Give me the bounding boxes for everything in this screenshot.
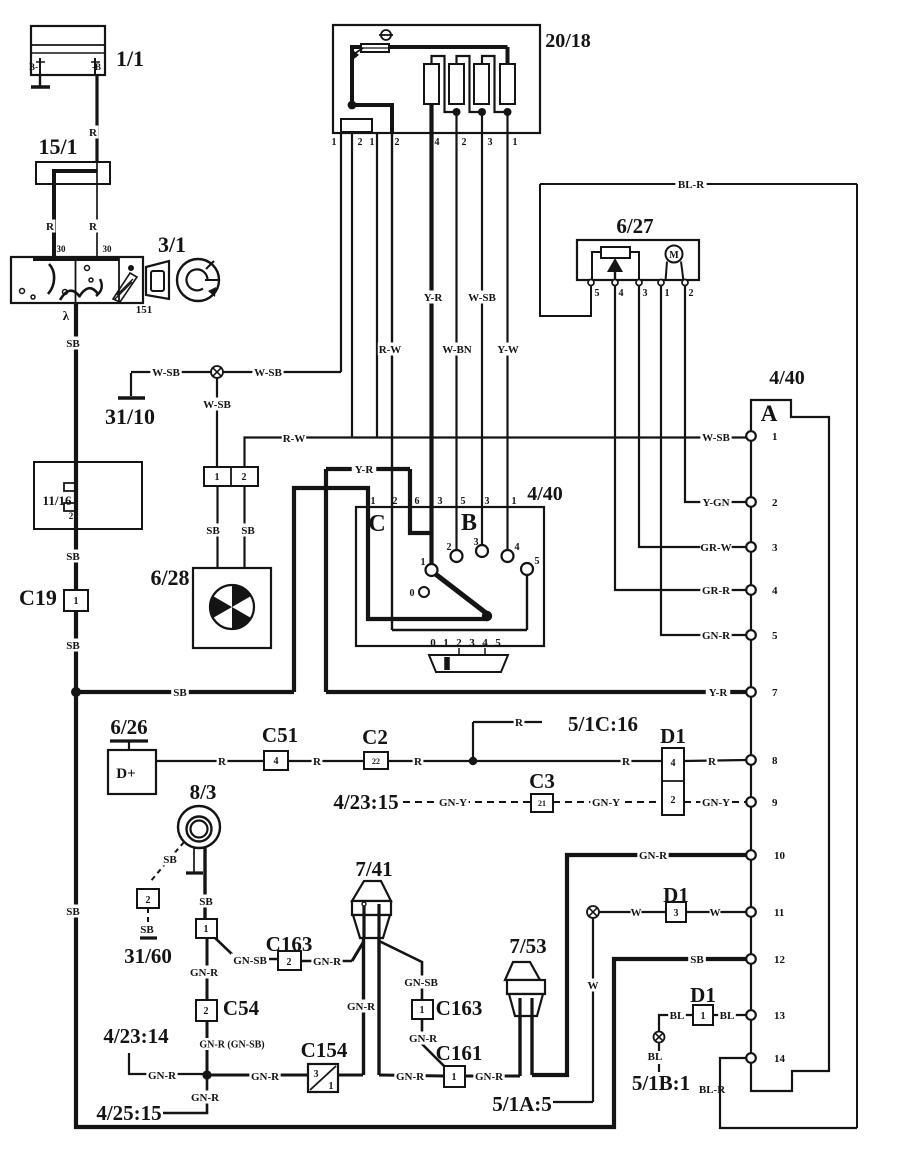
svg-text:31/60: 31/60 [124, 944, 172, 968]
svg-text:1: 1 [420, 1005, 425, 1016]
svg-text:4: 4 [619, 288, 624, 299]
svg-text:4/23:15: 4/23:15 [333, 790, 398, 814]
svg-text:W-SB: W-SB [702, 432, 730, 444]
svg-text:7: 7 [772, 687, 778, 699]
svg-text:B-: B- [29, 62, 38, 72]
svg-text:2: 2 [358, 137, 363, 148]
svg-text:GN-Y: GN-Y [592, 797, 620, 809]
svg-text:3: 3 [314, 1069, 319, 1080]
svg-text:R: R [89, 221, 98, 233]
svg-text:GN-R: GN-R [409, 1033, 438, 1045]
svg-text:R: R [622, 756, 631, 768]
svg-text:11/16: 11/16 [43, 493, 72, 508]
svg-text:R: R [46, 221, 55, 233]
svg-text:22: 22 [372, 757, 380, 766]
svg-text:SB: SB [173, 687, 187, 699]
svg-text:151: 151 [136, 304, 153, 316]
svg-text:20/18: 20/18 [545, 30, 591, 52]
svg-text:7/41: 7/41 [355, 857, 392, 881]
svg-text:0: 0 [410, 588, 415, 599]
svg-text:1: 1 [332, 137, 337, 148]
svg-text:Y-W: Y-W [497, 344, 519, 356]
svg-text:1: 1 [215, 472, 220, 483]
svg-text:BL-R: BL-R [699, 1084, 726, 1096]
svg-text:D1: D1 [663, 883, 689, 907]
svg-text:GN-R: GN-R [191, 1092, 220, 1104]
svg-text:2: 2 [456, 637, 462, 649]
svg-text:2: 2 [287, 957, 292, 968]
svg-text:0: 0 [430, 637, 436, 649]
svg-text:GN-R: GN-R [190, 967, 219, 979]
svg-text:11: 11 [774, 907, 784, 919]
svg-text:1: 1 [701, 1011, 706, 1022]
svg-text:30: 30 [57, 244, 67, 254]
svg-text:BL-R: BL-R [678, 179, 705, 191]
svg-text:3: 3 [485, 496, 490, 507]
svg-text:W: W [631, 907, 642, 919]
svg-text:3: 3 [474, 537, 479, 548]
svg-text:4: 4 [482, 637, 488, 649]
svg-text:1: 1 [772, 431, 778, 443]
svg-text:6/28: 6/28 [150, 565, 189, 590]
svg-text:GN-R: GN-R [251, 1071, 280, 1083]
svg-text:GN-SB: GN-SB [233, 955, 267, 967]
svg-text:SB: SB [66, 640, 80, 652]
svg-text:D+: D+ [116, 766, 135, 782]
svg-text:W-SB: W-SB [468, 292, 496, 304]
svg-text:SB: SB [66, 906, 80, 918]
svg-text:SB: SB [163, 854, 177, 866]
svg-text:4: 4 [772, 585, 778, 597]
svg-text:1: 1 [443, 637, 449, 649]
svg-text:C163: C163 [436, 996, 483, 1020]
svg-text:GR-R: GR-R [702, 585, 731, 597]
svg-text:λ: λ [63, 308, 70, 323]
svg-text:5: 5 [595, 288, 600, 299]
svg-text:R: R [89, 127, 98, 139]
svg-text:7/53: 7/53 [509, 934, 546, 958]
svg-text:Y-R: Y-R [355, 464, 375, 476]
svg-text:C54: C54 [223, 996, 260, 1020]
svg-text:GN-Y: GN-Y [702, 797, 730, 809]
svg-text:8: 8 [772, 755, 778, 767]
svg-text:5: 5 [772, 630, 778, 642]
svg-text:GN-R: GN-R [475, 1071, 504, 1083]
svg-text:R: R [515, 717, 524, 729]
svg-text:2: 2 [462, 137, 467, 148]
svg-text:C161: C161 [436, 1041, 483, 1065]
svg-text:3/1: 3/1 [158, 232, 186, 257]
svg-text:3: 3 [674, 908, 679, 919]
svg-text:C: C [368, 511, 385, 537]
svg-text:SB: SB [241, 525, 255, 537]
svg-text:4/25:15: 4/25:15 [96, 1101, 161, 1125]
svg-text:10: 10 [774, 850, 786, 862]
svg-text:15/1: 15/1 [38, 134, 77, 159]
svg-text:BL: BL [648, 1051, 663, 1063]
svg-text:C154: C154 [301, 1038, 348, 1062]
svg-text:6: 6 [415, 496, 420, 507]
svg-text:3: 3 [488, 137, 493, 148]
svg-text:1: 1 [513, 137, 518, 148]
svg-text:12: 12 [774, 954, 786, 966]
svg-text:2: 2 [69, 511, 74, 521]
svg-text:W-SB: W-SB [254, 367, 282, 379]
svg-text:1: 1 [512, 496, 517, 507]
svg-text:13: 13 [774, 1010, 786, 1022]
svg-text:14: 14 [774, 1053, 786, 1065]
svg-text:BL: BL [720, 1010, 735, 1022]
svg-text:GN-R (GN-SB): GN-R (GN-SB) [199, 1040, 264, 1051]
svg-text:1: 1 [371, 496, 376, 507]
svg-text:1: 1 [74, 596, 79, 607]
svg-text:1/1: 1/1 [116, 46, 144, 71]
svg-text:3: 3 [643, 288, 648, 299]
svg-text:2: 2 [242, 472, 247, 483]
svg-text:GR-W: GR-W [700, 542, 731, 554]
svg-text:21: 21 [538, 799, 546, 808]
svg-text:5/1A:5: 5/1A:5 [492, 1092, 552, 1116]
svg-text:1: 1 [204, 924, 209, 935]
svg-text:C2: C2 [362, 725, 388, 749]
svg-text:4: 4 [435, 137, 440, 148]
svg-text:5: 5 [461, 496, 466, 507]
svg-text:R: R [218, 756, 227, 768]
svg-text:GN-SB: GN-SB [404, 977, 438, 989]
svg-text:R: R [708, 756, 717, 768]
svg-text:GN-R: GN-R [313, 956, 342, 968]
svg-text:R-W: R-W [379, 344, 402, 356]
svg-text:2: 2 [393, 496, 398, 507]
svg-text:2: 2 [772, 497, 778, 509]
svg-text:1: 1 [452, 1072, 457, 1083]
svg-text:6/26: 6/26 [110, 715, 147, 739]
svg-text:C3: C3 [529, 769, 555, 793]
svg-text:4/40: 4/40 [769, 367, 805, 389]
svg-text:SB: SB [206, 525, 220, 537]
svg-text:31/10: 31/10 [105, 404, 155, 429]
svg-text:30: 30 [103, 244, 113, 254]
svg-text:Y-R: Y-R [709, 687, 729, 699]
svg-text:4/40: 4/40 [527, 483, 563, 505]
svg-text:4: 4 [671, 758, 676, 769]
svg-text:B: B [461, 510, 477, 536]
svg-text:C19: C19 [19, 585, 57, 610]
svg-text:2: 2 [447, 542, 452, 553]
svg-text:W-SB: W-SB [203, 399, 231, 411]
svg-text:SB: SB [66, 551, 80, 563]
svg-text:6/27: 6/27 [616, 214, 653, 238]
svg-text:Y-GN: Y-GN [702, 497, 729, 509]
svg-text:1: 1 [370, 137, 375, 148]
svg-text:R-W: R-W [283, 433, 306, 445]
svg-text:4/23:14: 4/23:14 [103, 1024, 169, 1048]
svg-text:SB: SB [199, 896, 213, 908]
svg-text:W-SB: W-SB [152, 367, 180, 379]
svg-text:2: 2 [671, 795, 676, 806]
svg-text:-B: -B [92, 62, 101, 72]
svg-text:SB: SB [690, 954, 704, 966]
svg-text:GN-Y: GN-Y [439, 797, 467, 809]
svg-text:GN-R: GN-R [702, 630, 731, 642]
svg-text:3: 3 [438, 496, 443, 507]
svg-text:W: W [710, 907, 721, 919]
svg-text:Y-R: Y-R [424, 292, 444, 304]
svg-text:C51: C51 [262, 723, 298, 747]
svg-text:GN-R: GN-R [639, 850, 668, 862]
svg-text:SB: SB [66, 338, 80, 350]
svg-text:3: 3 [469, 637, 475, 649]
svg-text:4: 4 [274, 756, 279, 767]
svg-text:2: 2 [146, 895, 151, 906]
svg-text:W: W [588, 980, 599, 992]
svg-text:2: 2 [395, 137, 400, 148]
svg-text:4: 4 [515, 542, 520, 553]
svg-text:8/3: 8/3 [190, 780, 217, 804]
svg-text:W-BN: W-BN [442, 344, 472, 356]
svg-text:1: 1 [665, 288, 670, 299]
svg-text:3: 3 [772, 542, 778, 554]
svg-text:SB: SB [140, 924, 154, 936]
svg-text:A: A [761, 401, 778, 426]
svg-text:GN-R: GN-R [148, 1070, 177, 1082]
svg-text:5/1C:16: 5/1C:16 [568, 712, 638, 736]
svg-text:BL: BL [670, 1010, 685, 1022]
svg-text:1: 1 [329, 1081, 334, 1092]
svg-text:5: 5 [535, 556, 540, 567]
svg-text:2: 2 [689, 288, 694, 299]
svg-text:9: 9 [772, 797, 778, 809]
svg-text:R: R [414, 756, 423, 768]
svg-text:C163: C163 [266, 932, 313, 956]
svg-text:1: 1 [421, 557, 426, 568]
svg-text:GN-R: GN-R [347, 1001, 376, 1013]
svg-text:GN-R: GN-R [396, 1071, 425, 1083]
svg-text:R: R [313, 756, 322, 768]
svg-text:5: 5 [495, 637, 501, 649]
svg-text:D1: D1 [690, 983, 716, 1007]
svg-text:2: 2 [204, 1006, 209, 1017]
svg-text:D1: D1 [660, 724, 686, 748]
svg-text:M: M [669, 250, 679, 261]
svg-text:5/1B:1: 5/1B:1 [632, 1071, 690, 1095]
